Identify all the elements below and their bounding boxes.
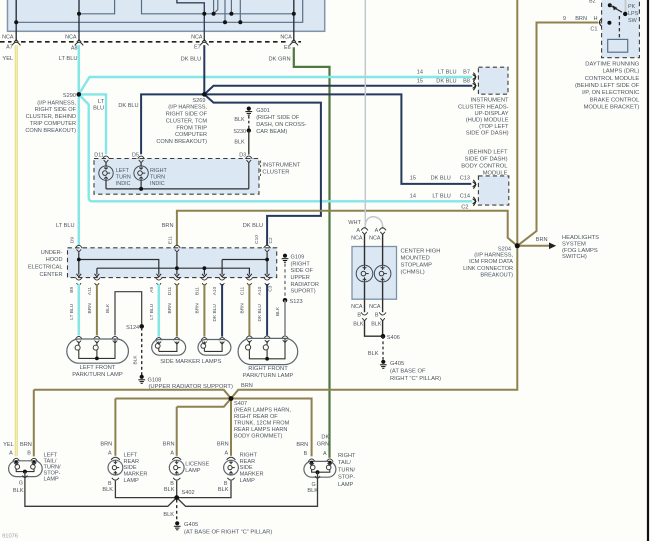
svg-text:SIDE OF: SIDE OF: [291, 268, 314, 274]
svg-text:RADIATOR: RADIATOR: [291, 282, 319, 288]
svg-text:RIGHT SIDE OF: RIGHT SIDE OF: [35, 107, 77, 113]
svg-text:BRN: BRN: [194, 303, 200, 314]
svg-text:S204: S204: [498, 246, 511, 252]
wire BLK G301 to S230 (dashed): [248, 116, 250, 129]
svg-text:(BEHIND LEFT: (BEHIND LEFT: [468, 149, 508, 155]
svg-text:B: B: [170, 481, 174, 487]
svg-text:STOP-: STOP-: [44, 471, 61, 477]
wire LT BLU A8 trunk: [78, 45, 81, 94]
ground G405 (right C pillar, upper): [381, 360, 385, 364]
svg-text:S407: S407: [234, 401, 247, 407]
svg-text:D11: D11: [94, 152, 104, 158]
svg-text:SW: SW: [628, 18, 638, 24]
svg-text:15: 15: [410, 175, 416, 181]
wire BRN C11 to right front lamp: [248, 284, 250, 335]
internal wiring lt blu circuit: [78, 252, 80, 274]
inner outline rect B / bus rail 1: [142, 0, 294, 14]
svg-text:CONN BREAKOUT): CONN BREAKOUT): [156, 139, 207, 145]
svg-text:A: A: [323, 451, 327, 457]
connector into DRL module: [600, 19, 602, 27]
svg-text:BLK: BLK: [234, 140, 245, 146]
svg-text:LEFT: LEFT: [116, 168, 130, 174]
svg-text:BLK: BLK: [218, 487, 229, 493]
svg-text:COMPUTER: COMPUTER: [175, 132, 207, 138]
switch contact dot: [607, 21, 611, 25]
svg-text:CENTER: CENTER: [40, 272, 63, 278]
svg-text:MODULE: MODULE: [483, 170, 508, 176]
svg-text:BLU: BLU: [93, 106, 104, 112]
svg-text:DK: DK: [321, 434, 329, 440]
splice S406: [381, 334, 386, 339]
wire WHT inside DRL: [625, 0, 627, 14]
svg-text:NCA: NCA: [351, 236, 363, 242]
wire stub into rail2 b: [239, 0, 241, 22]
svg-text:(I/P HARNESS,: (I/P HARNESS,: [474, 253, 513, 259]
svg-text:PK: PK: [628, 4, 636, 10]
svg-text:DK BLU: DK BLU: [243, 223, 263, 229]
svg-text:STOPLAMP: STOPLAMP: [401, 262, 433, 268]
svg-text:CONTROL MODULE: CONTROL MODULE: [585, 76, 640, 82]
svg-text:CLUSTER: CLUSTER: [262, 170, 289, 176]
svg-text:BODY GROMMET): BODY GROMMET): [234, 433, 283, 439]
svg-text:C10: C10: [254, 235, 260, 244]
wire stub into rail2: [224, 0, 226, 22]
svg-text:WHT: WHT: [348, 220, 361, 226]
svg-text:(AT BASE OF: (AT BASE OF: [390, 369, 426, 375]
wire BRN from DRL module to S204: [517, 23, 598, 246]
wire DK BLU S269 to cluster D5: [141, 94, 204, 154]
svg-text:C3: C3: [268, 285, 274, 291]
svg-text:REAR: REAR: [124, 459, 140, 465]
svg-text:S402: S402: [182, 490, 195, 496]
svg-text:HOOD: HOOD: [46, 257, 63, 263]
svg-text:SIDE: SIDE: [124, 465, 137, 471]
svg-text:RIGHT REAR OF: RIGHT REAR OF: [234, 414, 278, 420]
svg-text:TAIL/: TAIL/: [338, 460, 351, 466]
svg-text:REAR: REAR: [240, 459, 256, 465]
svg-text:SWITCH): SWITCH): [562, 254, 587, 260]
svg-text:MARKER: MARKER: [124, 472, 148, 478]
svg-text:(AT BASE OF RIGHT “C” PILLAR): (AT BASE OF RIGHT “C” PILLAR): [184, 529, 272, 535]
wire BRN vertical from top to S204: [516, 0, 518, 246]
connector C14: [473, 197, 475, 206]
wire BRN S407 to right rear marker: [230, 399, 232, 456]
wire BLK left marker to S402: [115, 481, 176, 498]
svg-text:LT BLU: LT BLU: [432, 193, 450, 199]
svg-text:(TOP LEFT: (TOP LEFT: [479, 124, 509, 130]
wire BRN to left rear marker: [114, 399, 116, 456]
svg-text:SUPORT): SUPORT): [291, 289, 316, 295]
svg-text:A8: A8: [71, 46, 78, 52]
svg-text:RIGHT FRONT: RIGHT FRONT: [248, 366, 288, 372]
harness separator dashed line: [0, 41, 12, 43]
svg-text:A: A: [224, 451, 228, 457]
HUD module box: [478, 67, 508, 94]
right turn indicator lamp: [140, 163, 142, 166]
wire A8 upper: [78, 0, 80, 41]
svg-text:RIGHT: RIGHT: [150, 168, 167, 174]
svg-text:LT BLU: LT BLU: [438, 70, 456, 76]
svg-text:I/P, ON ELECTRONIC: I/P, ON ELECTRONIC: [582, 90, 639, 96]
wire stub into rail1 b: [230, 0, 232, 14]
rear harness BRN rail A: [34, 390, 231, 399]
wire BRN D11 to side marker: [176, 284, 178, 337]
wire YEL A7 to left tail lamp: [15, 45, 18, 456]
svg-text:LAMP: LAMP: [124, 478, 140, 484]
dashed link to DRL block: [618, 16, 620, 39]
svg-text:BRN: BRN: [163, 442, 175, 448]
svg-text:LAMP: LAMP: [185, 468, 201, 474]
wire DK BLU S269 to underhood pin C10: [204, 94, 321, 245]
internal wiring dk blu circuit: [266, 252, 268, 274]
svg-text:PARK/TURN LAMP: PARK/TURN LAMP: [72, 372, 123, 378]
svg-text:NCA: NCA: [369, 236, 381, 242]
svg-text:LEFT: LEFT: [124, 453, 138, 459]
splice S407: [229, 396, 234, 401]
svg-text:CONN BREAKOUT): CONN BREAKOUT): [25, 128, 76, 134]
center high mounted stoplamp CHMSL box: [352, 247, 397, 300]
svg-text:NCA: NCA: [280, 34, 292, 40]
wire DK BLU A10/C3 to right front lamp: [266, 284, 268, 335]
wire LT BLU S290 to cluster D11: [79, 94, 106, 154]
svg-text:BLK: BLK: [368, 351, 379, 357]
wire BLK right tail to S402: [177, 472, 318, 506]
svg-text:FROM TRIP: FROM TRIP: [176, 125, 207, 131]
svg-text:A10: A10: [212, 286, 218, 295]
instrument cluster box: [94, 159, 259, 195]
svg-text:UP-DISPLAY: UP-DISPLAY: [475, 111, 509, 117]
svg-text:BRN: BRN: [167, 303, 173, 314]
svg-text:9: 9: [563, 16, 566, 22]
svg-text:S124: S124: [126, 325, 139, 331]
svg-text:A10: A10: [257, 286, 263, 295]
wire BLK CHMSL left to S406: [365, 321, 384, 337]
underhood electrical center box: [68, 248, 277, 278]
svg-text:TURN: TURN: [116, 175, 131, 181]
splice S402: [174, 495, 179, 500]
svg-text:BLK: BLK: [133, 355, 139, 365]
CHMSL bulb left: [364, 234, 366, 266]
svg-text:ICM FROM DATA: ICM FROM DATA: [469, 259, 513, 265]
svg-text:B: B: [27, 451, 31, 457]
svg-text:YEL: YEL: [3, 442, 14, 448]
svg-text:NCA: NCA: [65, 34, 77, 40]
daytime running lamps DRL control module box: [602, 0, 640, 58]
left turn indicator lamp: [105, 163, 107, 166]
svg-text:LAMP: LAMP: [338, 482, 354, 488]
internal wiring brn circuit: [176, 252, 178, 274]
wire BLK S124 to G108 (dashed): [141, 328, 143, 376]
svg-text:B: B: [357, 313, 361, 319]
svg-text:BRN: BRN: [100, 442, 112, 448]
rear harness BRN rail C: [177, 399, 231, 407]
wire BRN A11 to left front lamp: [96, 284, 98, 335]
svg-text:LICENSE: LICENSE: [185, 462, 209, 468]
svg-text:C1: C1: [590, 27, 597, 33]
splice S204: [515, 243, 520, 248]
svg-text:A7: A7: [6, 45, 13, 51]
svg-text:C11: C11: [239, 286, 245, 295]
svg-text:DAYTIME RUNNING: DAYTIME RUNNING: [585, 61, 639, 67]
wire BLK left front lamp to S124: [115, 292, 142, 336]
svg-text:YEL: YEL: [2, 56, 13, 62]
svg-text:H: H: [593, 16, 597, 22]
svg-text:LT BLU: LT BLU: [59, 56, 78, 62]
svg-text:CLUSTER, BEHIND: CLUSTER, BEHIND: [26, 114, 76, 120]
splice S290: [77, 92, 82, 97]
wire BLK S406 to G405 (dashed): [382, 336, 384, 359]
connector E6: [290, 42, 298, 45]
svg-text:BRN: BRN: [536, 237, 548, 243]
svg-text:S406: S406: [387, 335, 400, 341]
svg-text:(CHMSL): (CHMSL): [401, 269, 425, 275]
svg-text:A: A: [170, 451, 174, 457]
svg-text:DK BLU: DK BLU: [257, 304, 263, 322]
svg-text:STOP-: STOP-: [338, 475, 355, 481]
svg-text:INSTRUMENT: INSTRUMENT: [262, 163, 300, 169]
svg-text:LAMP: LAMP: [44, 477, 60, 483]
svg-text:SIDE OF DASH): SIDE OF DASH): [465, 156, 508, 162]
wire LT BLU A9 to side marker: [158, 284, 161, 337]
wire BLK left tail to S402: [25, 472, 177, 507]
wire LT BLU S290 to BCM C14: [79, 94, 473, 201]
connector B7: [473, 73, 475, 82]
svg-text:91076: 91076: [2, 534, 18, 540]
svg-text:PARK/TURN LAMP: PARK/TURN LAMP: [243, 373, 294, 379]
body control module box: [478, 176, 508, 205]
svg-text:DK BLU: DK BLU: [212, 304, 218, 322]
svg-text:SIDE: SIDE: [240, 465, 253, 471]
svg-text:D3: D3: [239, 152, 246, 158]
splice S269: [202, 92, 207, 97]
right front park/turn lamp: [246, 336, 253, 339]
svg-text:A11: A11: [87, 287, 93, 296]
top cut-off module box: [8, 0, 325, 31]
svg-text:TURN: TURN: [150, 175, 165, 181]
svg-text:UNDER-: UNDER-: [41, 250, 63, 256]
svg-text:14: 14: [417, 70, 423, 76]
svg-text:14: 14: [410, 193, 416, 199]
svg-text:RIGHT SIDE OF: RIGHT SIDE OF: [166, 112, 208, 118]
wire BLK license lamp to S402: [176, 481, 178, 497]
ground G108: [140, 375, 144, 379]
svg-text:LT BLU: LT BLU: [69, 303, 75, 319]
svg-text:CAR BEAM): CAR BEAM): [256, 129, 287, 135]
svg-text:BRAKE CONTROL: BRAKE CONTROL: [590, 97, 640, 103]
wire BRN feed to S204: [177, 211, 517, 246]
ground G301: [247, 107, 251, 111]
svg-text:BRN: BRN: [217, 442, 229, 448]
svg-text:E11: E11: [167, 236, 173, 245]
svg-text:UPPER: UPPER: [291, 275, 310, 281]
svg-text:SYSTEM: SYSTEM: [562, 242, 586, 248]
svg-text:CENTER HIGH: CENTER HIGH: [401, 248, 441, 254]
svg-text:BLK: BLK: [105, 303, 111, 313]
svg-text:G405: G405: [184, 522, 198, 528]
svg-text:(I/P HARNESS,: (I/P HARNESS,: [168, 105, 207, 111]
svg-text:BRN: BRN: [575, 16, 587, 22]
svg-text:BLK: BLK: [13, 488, 24, 494]
svg-text:C2: C2: [268, 237, 274, 243]
svg-text:A: A: [108, 451, 112, 457]
splice S230: [247, 128, 251, 132]
svg-text:RIGHT: RIGHT: [240, 453, 258, 459]
CHMSL bulb right: [382, 234, 384, 266]
svg-text:BRN: BRN: [241, 383, 253, 389]
wire BLK right marker to S402: [177, 481, 231, 498]
svg-text:C13: C13: [460, 175, 470, 181]
svg-text:DASH, ON CROSS-: DASH, ON CROSS-: [256, 122, 306, 128]
svg-text:LAMPS (DRL): LAMPS (DRL): [603, 69, 640, 75]
svg-text:E6: E6: [284, 45, 291, 51]
wire BLK S123 to right front lamp: [284, 300, 286, 335]
splice S124: [139, 324, 144, 329]
svg-text:CLUSTER, TCM: CLUSTER, TCM: [166, 118, 208, 124]
svg-text:BREAKOUT): BREAKOUT): [480, 272, 513, 278]
svg-text:LT: LT: [98, 99, 105, 105]
svg-text:TURN/: TURN/: [44, 465, 62, 471]
svg-text:B11: B11: [194, 287, 200, 296]
svg-text:SIDE OF DASH): SIDE OF DASH): [466, 131, 509, 137]
svg-text:LPS: LPS: [628, 11, 639, 17]
wire BRN B11 to side marker 2: [203, 284, 205, 337]
wire E6 upper: [293, 0, 295, 41]
svg-text:D9: D9: [69, 237, 75, 243]
svg-text:D5: D5: [132, 152, 139, 158]
svg-text:(FOG LAMPS: (FOG LAMPS: [562, 248, 598, 254]
splice S204 dot overlay: [515, 243, 520, 248]
svg-text:SIDE MARKER LAMPS: SIDE MARKER LAMPS: [160, 359, 221, 365]
wire BRN S204 down to rear lamps rail: [231, 246, 517, 399]
svg-text:15: 15: [417, 79, 423, 85]
svg-text:MOUNTED: MOUNTED: [401, 255, 430, 261]
svg-text:G301: G301: [256, 108, 270, 114]
svg-text:B: B: [224, 481, 228, 487]
svg-text:B: B: [375, 313, 379, 319]
svg-text:G109: G109: [291, 255, 305, 261]
svg-text:TAIL/: TAIL/: [44, 458, 57, 464]
splice S123: [283, 298, 288, 303]
jogged wire stub into rail1: [214, 0, 218, 14]
svg-text:(BEHIND LEFT SIDE OF: (BEHIND LEFT SIDE OF: [575, 83, 640, 89]
wire LT BLU S290 to underhood center: [78, 94, 81, 245]
wire DK BLU S269 to BCM C13: [204, 94, 471, 183]
bottom pins of underhood center: [76, 274, 81, 277]
svg-text:C14: C14: [460, 193, 470, 199]
svg-text:BLK: BLK: [164, 487, 175, 493]
svg-text:S269: S269: [192, 98, 205, 104]
svg-text:BRN: BRN: [162, 223, 174, 229]
rear harness BRN rail B: [115, 399, 311, 457]
wire DK GRN E6 to right tail lamp: [294, 47, 330, 458]
svg-text:DK BLU: DK BLU: [431, 175, 451, 181]
wire BLK S230 to cluster D3: [248, 131, 250, 155]
svg-text:S123: S123: [290, 299, 303, 305]
wire DK BLU S269 to HUD pin B8: [204, 86, 472, 95]
svg-text:DK BLU: DK BLU: [118, 103, 138, 109]
svg-text:CLUSTER HEADS-: CLUSTER HEADS-: [458, 104, 509, 110]
svg-text:BODY CONTROL: BODY CONTROL: [461, 163, 508, 169]
svg-text:G: G: [19, 480, 23, 486]
svg-text:B8: B8: [463, 79, 470, 85]
svg-text:E7: E7: [194, 45, 201, 51]
svg-text:BRN: BRN: [296, 442, 308, 448]
svg-text:RIGHT: RIGHT: [338, 453, 356, 459]
wire E7 upper feeder: [177, 0, 204, 41]
svg-text:LEFT FRONT: LEFT FRONT: [80, 365, 116, 371]
svg-text:BLK: BLK: [163, 512, 174, 518]
wire DK BLU E7 trunk: [203, 45, 205, 94]
svg-text:BLK: BLK: [275, 306, 281, 316]
svg-text:LINK CONNECTOR: LINK CONNECTOR: [463, 266, 513, 272]
wire LT BLU B9 to left front lamp: [78, 284, 81, 335]
svg-text:S230: S230: [233, 129, 246, 135]
svg-text:A: A: [9, 451, 13, 457]
svg-text:(RIGHT: (RIGHT: [291, 261, 311, 267]
svg-text:B: B: [304, 451, 308, 457]
ground G405 at right C pillar: [175, 521, 179, 525]
svg-text:NCA: NCA: [191, 34, 203, 40]
cluster internal bus wire: [106, 188, 249, 190]
wire DK BLU A10 to side marker 2: [221, 284, 223, 337]
svg-text:NCA: NCA: [2, 34, 14, 40]
left front park/turn lamp: [75, 336, 82, 339]
svg-text:S290: S290: [63, 93, 76, 99]
connector E7: [200, 42, 208, 45]
svg-text:DK BLU: DK BLU: [181, 56, 202, 62]
svg-text:ELECTRICAL: ELECTRICAL: [28, 265, 63, 271]
svg-text:TRUNK, 12CM FROM: TRUNK, 12CM FROM: [234, 420, 290, 426]
svg-text:MODULE BRACKET): MODULE BRACKET): [584, 105, 640, 111]
svg-text:B: B: [108, 481, 112, 487]
svg-text:DK GRN: DK GRN: [268, 56, 290, 62]
svg-text:INDIC: INDIC: [150, 181, 165, 187]
svg-text:(HUD) MODULE: (HUD) MODULE: [466, 118, 509, 124]
svg-text:REAR LAMPS HARN: REAR LAMPS HARN: [234, 427, 287, 433]
svg-text:BLK: BLK: [371, 321, 382, 327]
svg-text:INDIC: INDIC: [116, 181, 131, 187]
svg-text:G405: G405: [390, 361, 404, 367]
page border right: [647, 0, 649, 541]
svg-text:(I/P HARNESS,: (I/P HARNESS,: [37, 100, 76, 106]
svg-text:TURN/: TURN/: [338, 467, 356, 473]
wire BRN to left tail lamp: [33, 390, 35, 457]
wire A7 upper: [15, 0, 17, 41]
connector C13: [473, 180, 475, 189]
svg-text:BLK: BLK: [353, 321, 364, 327]
svg-text:GRN: GRN: [317, 441, 329, 447]
connector B8: [473, 81, 475, 90]
svg-text:(RIGHT SIDE OF: (RIGHT SIDE OF: [256, 115, 300, 121]
wire LT BLU S290 to HUD pin B7: [79, 77, 473, 94]
wire BRN to license lamp: [176, 407, 178, 456]
svg-text:LAMP: LAMP: [240, 478, 256, 484]
svg-text:HEADLIGHTS: HEADLIGHTS: [562, 235, 599, 241]
DRL internal block: [608, 39, 628, 52]
svg-text:LEFT: LEFT: [44, 452, 58, 458]
svg-text:B2: B2: [589, 0, 595, 4]
svg-text:B7: B7: [463, 70, 470, 76]
junction dots top box: [14, 20, 18, 24]
svg-text:BLK: BLK: [102, 487, 113, 493]
svg-text:BRN: BRN: [239, 303, 245, 314]
svg-text:G108: G108: [148, 377, 162, 383]
wire stub into rail1: [213, 0, 215, 14]
svg-text:INSTRUMENT: INSTRUMENT: [471, 98, 509, 104]
svg-text:BLK: BLK: [234, 117, 245, 123]
svg-text:NCA: NCA: [369, 304, 381, 310]
wire WHT to CHMSL: [364, 0, 366, 229]
